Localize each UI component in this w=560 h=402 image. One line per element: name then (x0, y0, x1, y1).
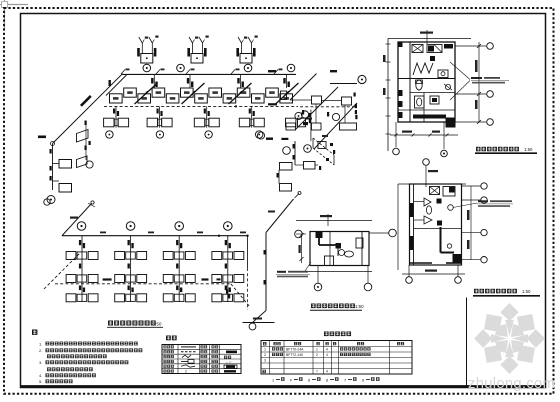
svg-text:BFT72-140: BFT72-140 (286, 353, 303, 357)
svg-text:1:50: 1:50 (522, 289, 531, 294)
svg-text:8: 8 (326, 378, 328, 382)
svg-text:2: 2 (316, 353, 318, 357)
svg-text:2: 2 (185, 370, 187, 374)
svg-text:3.: 3. (39, 360, 42, 365)
svg-text:1: 1 (272, 378, 274, 382)
svg-text:2.: 2. (39, 348, 42, 353)
svg-text:1.: 1. (39, 341, 42, 346)
svg-text:3: 3 (264, 359, 266, 363)
svg-text:4.: 4. (39, 373, 42, 378)
svg-text:1:50: 1:50 (153, 322, 162, 327)
svg-text:1:50: 1:50 (355, 304, 364, 309)
svg-text:7: 7 (344, 378, 346, 382)
svg-text:2: 2 (264, 353, 266, 357)
svg-text:zhulong.com: zhulong.com (468, 376, 555, 392)
svg-text:1: 1 (316, 348, 318, 352)
svg-text:BFT70-24A: BFT70-24A (286, 348, 304, 352)
svg-text:6: 6 (362, 378, 364, 382)
svg-text:4: 4 (326, 353, 328, 357)
svg-text:4: 4 (326, 348, 328, 352)
svg-text:←○: ←○ (225, 359, 232, 364)
svg-text:5.: 5. (39, 379, 42, 384)
svg-text:1: 1 (264, 348, 266, 352)
svg-text:4: 4 (326, 370, 328, 374)
svg-text:1:50: 1:50 (524, 147, 533, 152)
svg-text:8: 8 (308, 378, 310, 382)
svg-text:7: 7 (316, 370, 318, 374)
